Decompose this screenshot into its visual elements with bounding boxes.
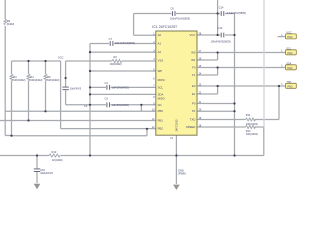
svg-text:1K(0402): 1K(0402) — [52, 158, 63, 162]
svg-text:10uF/6V3: 10uF/6V3 — [70, 86, 82, 90]
svg-text:10K(0402): 10K(0402) — [47, 78, 59, 82]
svg-text:NC: NC — [158, 103, 162, 107]
wire flag4 row — [197, 85, 286, 87]
wire IC gnd drop — [175, 135, 177, 184]
svg-text:1uF/16V(0402): 1uF/16V(0402) — [112, 85, 129, 89]
wire pair y60 — [197, 53, 218, 61]
wire flag2 row — [197, 52, 286, 54]
svg-text:14: 14 — [170, 137, 173, 140]
svg-text:A2: A2 — [158, 50, 162, 54]
IC pin names right — [186, 33, 196, 129]
label C7 — [109, 37, 136, 45]
svg-text:PAD: PAD — [287, 51, 292, 55]
wire R11 row — [197, 86, 279, 120]
IC1 reference label — [152, 25, 178, 29]
wire top stub x217 — [217, 0, 219, 35]
svg-text:10K(0402): 10K(0402) — [30, 78, 42, 82]
svg-text:100nF/6V3(0603): 100nF/6V3(0603) — [211, 40, 231, 44]
flag PAD4 — [281, 81, 296, 89]
svg-text:1uF/16V(0402): 1uF/16V(0402) — [112, 103, 129, 107]
svg-text:PAD: PAD — [287, 35, 292, 39]
capacitor C12 — [221, 33, 224, 38]
svg-text:C7: C7 — [109, 37, 113, 41]
svg-text:PB1: PB1 — [158, 118, 164, 122]
wire rail right net — [66, 60, 112, 62]
wire cap row y87 — [90, 86, 156, 88]
wire row to pin l9 — [61, 128, 156, 130]
svg-text:MISO: MISO — [158, 97, 166, 101]
svg-text:100nF/6V3(0603): 100nF/6V3(0603) — [115, 41, 135, 45]
label C14 — [219, 6, 246, 16]
pin numbers right — [199, 32, 202, 127]
wire row D bottom — [12, 129, 148, 136]
resistor R3 — [10, 61, 13, 136]
svg-text:VSS: VSS — [158, 59, 164, 63]
capacitor C6 — [172, 11, 175, 16]
svg-text:6: 6 — [153, 77, 155, 80]
wire jumper x141 — [140, 105, 142, 112]
label C6 — [170, 7, 190, 21]
label R3 — [13, 75, 25, 82]
label GND net — [178, 168, 186, 175]
svg-text:(PWR): (PWR) — [178, 172, 186, 176]
wire net left vertical — [5, 0, 11, 136]
svg-text:E1: E1 — [192, 92, 196, 96]
wire pair y75 — [197, 68, 218, 76]
svg-text:R11: R11 — [246, 113, 251, 117]
capacitor C5 — [107, 102, 110, 107]
svg-text:C5: C5 — [105, 97, 109, 101]
ground arrow center head — [173, 185, 180, 190]
svg-text:24FC1025: 24FC1025 — [175, 119, 179, 132]
svg-text:100uF/6V3: 100uF/6V3 — [40, 171, 53, 175]
capacitor C7 — [110, 41, 113, 46]
wire pin row y103 — [197, 103, 235, 105]
svg-text:WP: WP — [158, 69, 163, 73]
svg-text:4.7uF/25V(0805): 4.7uF/25V(0805) — [227, 11, 247, 15]
wire C7 loop top — [90, 43, 156, 45]
wire flag3 row — [197, 67, 286, 69]
wire pin row y94 — [90, 93, 156, 95]
flag PAD2 — [281, 47, 296, 55]
svg-text:A1: A1 — [158, 41, 162, 45]
IC vertical part text — [175, 119, 179, 132]
svg-text:SCL: SCL — [158, 85, 164, 89]
wire cap row y105 — [90, 104, 156, 106]
wire pin row y71 — [90, 70, 156, 72]
label R12 — [246, 129, 258, 136]
component labels small text — [7, 6, 258, 176]
svg-text:W0: W0 — [191, 50, 196, 54]
svg-text:C2: C2 — [84, 104, 88, 108]
label C4 — [105, 81, 129, 89]
capacitor C2 — [62, 87, 68, 90]
svg-text:TXD: TXD — [190, 117, 196, 121]
wire row SCL — [0, 120, 156, 122]
svg-text:10K(0402): 10K(0402) — [13, 78, 25, 82]
resistor R5 — [44, 61, 47, 111]
ground arrow left head — [34, 184, 41, 189]
wire column x60 — [60, 61, 62, 129]
capacitor C4 — [107, 85, 110, 90]
resistor R11 — [246, 118, 256, 121]
svg-text:P1: P1 — [192, 109, 196, 113]
wire pullup rail left net — [12, 60, 61, 62]
wire frame column light — [263, 0, 265, 127]
svg-text:P0: P0 — [192, 101, 196, 105]
label C2 — [70, 86, 88, 108]
op-amp U1 : main IC body — [156, 31, 197, 135]
svg-text:A0: A0 — [158, 33, 162, 37]
capacitor C14 — [221, 11, 224, 16]
svg-text:W1: W1 — [191, 58, 196, 62]
wire column x65 — [66, 61, 90, 105]
svg-text:PAD: PAD — [287, 84, 292, 88]
svg-text:C12: C12 — [218, 26, 223, 30]
svg-text:8: 8 — [153, 96, 155, 99]
svg-text:PB0: PB0 — [158, 109, 164, 113]
svg-text:R13: R13 — [52, 150, 57, 154]
svg-text:PB2: PB2 — [158, 127, 164, 131]
svg-text:E0: E0 — [192, 84, 196, 88]
wire gnd return x234 — [234, 14, 236, 156]
resistor R4 — [27, 61, 30, 121]
label VCC rail — [58, 56, 64, 60]
resistor R12 — [246, 126, 256, 129]
wire pin row y111 — [197, 110, 235, 112]
svg-text:100nF/16V(0603): 100nF/16V(0603) — [170, 17, 190, 21]
svg-text:VCC: VCC — [58, 56, 64, 60]
flag PAD1 — [281, 31, 296, 39]
pin number bottom — [170, 137, 173, 140]
svg-text:(0402): (0402) — [7, 22, 15, 26]
wire riser to pin1 left — [134, 14, 156, 36]
label R5 — [47, 75, 59, 82]
svg-text:F1: F1 — [192, 73, 196, 77]
svg-text:10K(0402): 10K(0402) — [246, 132, 258, 136]
capacitor C10 — [34, 169, 40, 172]
resistor R9 — [4, 19, 7, 25]
svg-text:SPEED: SPEED — [186, 125, 195, 129]
label R2 — [110, 55, 122, 66]
svg-text:C4: C4 — [105, 81, 109, 85]
resistor R13 — [49, 154, 60, 157]
label R9 — [7, 19, 15, 26]
label C5 — [105, 97, 129, 108]
wire row SDA — [5, 110, 156, 112]
wire rail to IC — [122, 60, 156, 62]
svg-text:VCC: VCC — [189, 33, 195, 37]
svg-text:C6: C6 — [171, 7, 175, 11]
wire gnd row bottom — [0, 155, 264, 157]
svg-text:MOSI: MOSI — [158, 78, 165, 82]
label C12 — [211, 26, 231, 44]
label R4 — [30, 75, 42, 82]
svg-text:1K0(0402): 1K0(0402) — [110, 62, 122, 66]
svg-text:R2: R2 — [114, 55, 118, 59]
svg-text:C14: C14 — [219, 6, 224, 10]
svg-text:F0: F0 — [192, 65, 196, 69]
svg-text:10K(0402): 10K(0402) — [246, 122, 258, 126]
wire R12 row — [197, 127, 264, 156]
wire pin row y52 — [90, 51, 156, 53]
label C10 — [40, 168, 53, 175]
wire pin1 right row — [197, 34, 235, 36]
wire pair y94r — [197, 86, 218, 94]
pin numbers left — [152, 33, 155, 130]
resistor R2 — [112, 60, 122, 63]
wire vertical x90 — [89, 44, 91, 156]
svg-text:IC1 24FC1025T: IC1 24FC1025T — [152, 25, 178, 29]
wire VCC top rail — [134, 13, 235, 15]
wire cap C10 drop — [36, 156, 38, 184]
flag PAD3 — [281, 62, 296, 70]
svg-text:PAD: PAD — [287, 66, 292, 70]
wire flag1 stub — [278, 36, 286, 38]
label R13 — [52, 150, 63, 162]
IC pin names left — [158, 33, 166, 131]
label R11 — [246, 113, 258, 126]
